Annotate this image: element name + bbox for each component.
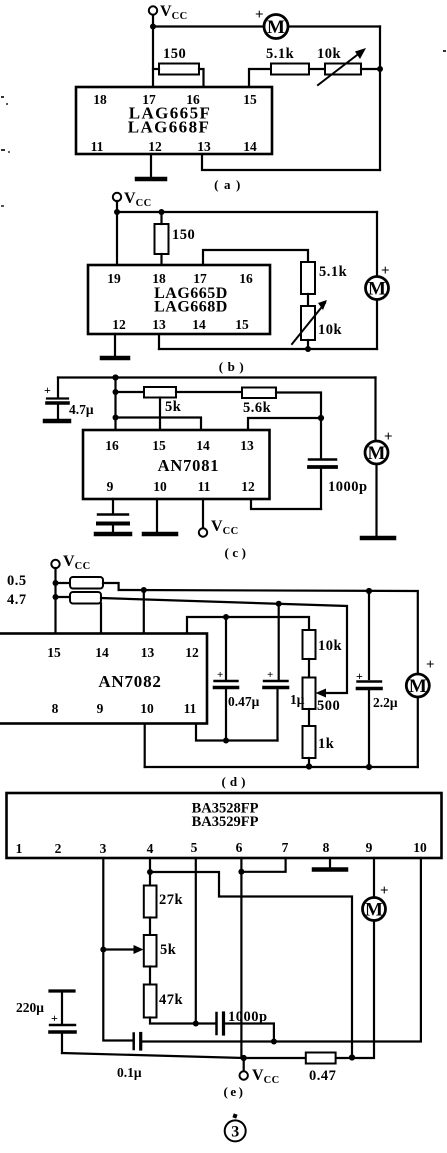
svg-text:+: + [44, 383, 51, 397]
svg-text:150: 150 [172, 227, 195, 243]
resistor 5.6k (c) [242, 388, 276, 417]
wire pin12 to 1000p bottom (c) [251, 499, 321, 509]
wire motor bottom (c) [375, 464, 377, 536]
wire bottom rail (b) [159, 348, 377, 350]
svg-text:4: 4 [147, 841, 154, 856]
svg-text:17: 17 [142, 92, 156, 107]
capacitor 1000p (e) [217, 1009, 268, 1034]
wire pin9 to motor (e) [373, 858, 375, 898]
arrow 500 wiper (d) [316, 689, 327, 698]
motor M (d) [406, 657, 434, 697]
svg-text:7: 7 [282, 840, 289, 855]
svg-text:VCC: VCC [211, 518, 239, 537]
resistor 150 (a) [159, 46, 199, 75]
capacitor 1u (d) [264, 669, 305, 741]
resistor 4.7 (d) [7, 592, 101, 608]
capacitor 220u (e) [16, 991, 75, 1053]
resistor 47k (e) [144, 985, 184, 1018]
variable resistor 10k (a) [317, 46, 366, 85]
junction dot 1u top (d) [276, 601, 282, 607]
wire2 R2 to 500 wiper (d) [101, 598, 347, 693]
junction dot 1k bottom (d) [306, 763, 312, 769]
motor M (c) [365, 429, 393, 464]
svg-text:220μ: 220μ [16, 1000, 44, 1015]
svg-text:12: 12 [148, 139, 162, 154]
wire 1u top stem (d) [278, 604, 280, 680]
wire 27k to 5k (e) [149, 918, 151, 936]
wire 150 right lead to pin16 (a) [199, 69, 204, 87]
wire top rail (c) [58, 376, 376, 378]
svg-text:+: + [255, 7, 264, 23]
svg-text:AN7081: AN7081 [158, 456, 220, 475]
svg-text:5k: 5k [165, 399, 182, 415]
capacitor 0.1u (e) [117, 1034, 142, 1081]
ground pin 12 (b) [102, 334, 128, 358]
junction dot pin16 mid2 (c) [113, 415, 119, 421]
svg-text:5: 5 [191, 840, 198, 855]
svg-text:12: 12 [241, 479, 255, 494]
svg-text:17: 17 [193, 271, 207, 286]
margin speck 3 [443, 50, 446, 52]
capacitor 4.7u (c) [44, 378, 94, 422]
resistor 10k (d) [303, 630, 343, 659]
svg-text:16: 16 [186, 92, 200, 107]
wire 10k right lead (a) [361, 68, 380, 70]
svg-text:LAG668F: LAG668F [128, 118, 211, 137]
svg-text:M: M [365, 900, 383, 921]
svg-text:M: M [368, 279, 386, 300]
motor M (b) [366, 263, 390, 300]
wire pin4-5 tie to chain (e) [150, 872, 352, 1058]
svg-text:16: 16 [105, 438, 119, 453]
junction dot pin4 (e) [147, 869, 153, 875]
wire pin3 vertical to 0.1u (e) [103, 858, 133, 1041]
svg-text:M: M [368, 443, 386, 464]
IC LAG665D/LAG668D box (b) [88, 265, 270, 334]
wire pin15 up lead (a) [249, 69, 271, 87]
svg-text:13: 13 [240, 438, 254, 453]
svg-text:+: + [217, 669, 223, 681]
wire 0.47u top stem (d) [225, 617, 227, 680]
wire right rail (b) [376, 212, 378, 277]
wire motor to right rail (a) [288, 25, 380, 27]
wire pin10 to 0.1u wire (e) [141, 858, 421, 1042]
svg-text:150: 150 [163, 46, 186, 62]
svg-text:(e): (e) [224, 1084, 246, 1099]
wire pin17 to 5.1k (b) [203, 250, 308, 265]
svg-text:12: 12 [112, 317, 126, 332]
wire bottom rail (d) [145, 766, 418, 768]
svg-text:4.7: 4.7 [7, 592, 27, 608]
svg-text:LAG668D: LAG668D [154, 299, 228, 316]
svg-text:8: 8 [52, 701, 59, 716]
resistor 1k (d) [303, 726, 335, 758]
wire bottom to pin13 (a) [202, 154, 380, 170]
wire 1k bottom stub (d) [308, 758, 310, 767]
margin speck 4 [1, 205, 4, 207]
resistor 150 (b) [155, 224, 196, 254]
svg-text:13: 13 [197, 139, 211, 154]
wire right rail (d) [417, 591, 419, 675]
junction dot Vcc rail (b) [114, 209, 120, 215]
svg-text:11: 11 [91, 139, 104, 154]
wire right rail (a) [379, 27, 381, 171]
wire pin11 to caps (d) [196, 724, 278, 741]
wire 10k to 500 (d) [308, 659, 310, 678]
wire 5k to 5.6k (c) [176, 391, 242, 393]
svg-text:14: 14 [243, 139, 257, 154]
svg-text:2.2μ: 2.2μ [373, 695, 398, 710]
svg-text:47k: 47k [159, 992, 184, 1008]
wire 1000p right to 0.1u wire (e) [225, 1024, 274, 1042]
IC BA3528FP/BA3529FP box (e) [7, 793, 442, 858]
capacitor 0.47u (d) [215, 669, 260, 741]
wire pin6 vertical (e) [240, 858, 242, 1058]
junction dot 5k wiper (e) [100, 947, 106, 953]
junction dot rail/pin16 (c) [112, 374, 118, 380]
svg-text:1000p: 1000p [328, 479, 368, 495]
svg-text:11: 11 [184, 701, 197, 716]
junction dot 2.2u top (d) [366, 588, 372, 594]
wire 150 left lead (a) [153, 68, 159, 70]
terminal Vcc pin 11 (c) [199, 499, 239, 537]
junction dot 10k/rail (a) [377, 66, 383, 72]
wire Vcc vertical pin15 (d) [54, 568, 56, 634]
svg-text:+: + [380, 883, 389, 899]
svg-text:3: 3 [231, 1124, 239, 1141]
wire 150 leads (b) [160, 212, 162, 265]
svg-text:+: + [267, 669, 273, 681]
svg-text:19: 19 [107, 271, 121, 286]
wire pin4 stub (e) [149, 858, 151, 886]
svg-text:10k: 10k [318, 322, 343, 338]
svg-text:0.1μ: 0.1μ [117, 1065, 142, 1080]
wire 10k bottom (b) [307, 340, 309, 349]
junction dot (a) Vcc/motor [150, 24, 156, 30]
wire 5k wiper (e) [103, 948, 137, 950]
wire top rail (b) [117, 211, 377, 213]
svg-text:0.5: 0.5 [7, 573, 27, 589]
svg-text:4.7μ: 4.7μ [69, 402, 94, 417]
margin speck 2 [1, 149, 10, 153]
resistor 27k (e) [144, 886, 184, 918]
svg-text:1μ: 1μ [290, 692, 305, 707]
wire right rail (c) [374, 378, 376, 442]
motor M (a) [255, 7, 288, 39]
motor M (e) [363, 883, 389, 921]
terminal Vcc (e) [240, 1058, 280, 1086]
potentiometer 500 (d) [303, 678, 341, 715]
wire pin13 vertical (d) [143, 590, 145, 634]
svg-text:BA3529FP: BA3529FP [192, 814, 259, 830]
svg-text:12: 12 [185, 645, 199, 660]
page number circled 3 [225, 1113, 246, 1141]
svg-text:3: 3 [100, 841, 107, 856]
svg-text:(d): (d) [222, 774, 250, 789]
svg-text:1k: 1k [318, 736, 335, 752]
svg-text:16: 16 [239, 271, 253, 286]
svg-text:15: 15 [235, 317, 249, 332]
junction dot 0.47u top (d) [223, 614, 229, 620]
svg-text:10k: 10k [318, 638, 343, 654]
svg-text:VCC: VCC [160, 3, 188, 22]
svg-text:18: 18 [93, 92, 107, 107]
svg-text:8: 8 [323, 840, 330, 855]
wire pin10 stub (d) [144, 724, 146, 768]
ground pin 12 (a) [137, 154, 165, 179]
wire to 5k resistor (c) [116, 391, 145, 393]
svg-text:15: 15 [47, 645, 61, 660]
wire 500 to 1k (d) [308, 709, 310, 726]
svg-text:6: 6 [236, 840, 243, 855]
svg-text:0.47: 0.47 [309, 1068, 336, 1084]
svg-text:10: 10 [153, 479, 167, 494]
svg-text:AN7082: AN7082 [98, 672, 161, 691]
wire 47k to 1000p (e) [150, 1018, 215, 1024]
svg-text:14: 14 [95, 645, 109, 660]
wire to motor (a) [153, 25, 264, 27]
junction dot pin16 mid1 (c) [113, 389, 119, 395]
svg-text:5.6k: 5.6k [243, 400, 272, 416]
potentiometer 5k (e) [144, 935, 177, 967]
svg-text:15: 15 [152, 438, 166, 453]
wire pin16 vertical (c) [114, 378, 116, 431]
junction dot pin13 top (d) [141, 587, 147, 593]
svg-text:10: 10 [140, 701, 154, 716]
terminal Vcc (d) [51, 553, 90, 572]
svg-text:+: + [381, 263, 390, 279]
svg-text:VCC: VCC [63, 553, 91, 572]
wire motor bottom (b) [376, 300, 378, 350]
junction dot pin5 wire (e) [193, 1021, 199, 1027]
variable resistor 10k (b) [292, 300, 343, 344]
wire Vcc vertical (a) [152, 15, 154, 87]
svg-text:(a): (a) [214, 177, 246, 192]
IC AN7082 box (d) [0, 634, 207, 724]
ground motor (c) [362, 536, 394, 541]
wire 5.6k right to pin13 (c) [248, 393, 321, 431]
wire pin15 stub (c) [159, 398, 161, 431]
ground pin 8 (e) [314, 858, 346, 870]
junction dot R1 left (d) [53, 580, 59, 586]
wire bottom rail left (e) [62, 1053, 306, 1058]
svg-text:(c): (c) [225, 545, 250, 560]
junction dot 1000p top (c) [318, 415, 324, 421]
wire motor bottom to 0.47 (e) [336, 921, 374, 1059]
junction dot 2.2u bottom (d) [366, 764, 372, 770]
arrow 5k wiper (e) [134, 945, 144, 954]
resistor 5.1k (a) [266, 46, 309, 75]
svg-text:1: 1 [16, 841, 23, 856]
svg-text:VCC: VCC [124, 190, 152, 209]
junction dot 0.47u bottom (d) [223, 738, 229, 744]
wire 5k to 47k (e) [149, 967, 151, 985]
svg-text:10k: 10k [317, 46, 342, 62]
IC AN7081 box (c) [83, 430, 270, 499]
wire 5.1k to 10k (a) [309, 68, 325, 70]
svg-text:500: 500 [317, 698, 340, 714]
capacitor and ground pin 9 (c) [96, 499, 130, 534]
svg-text:9: 9 [366, 840, 373, 855]
wire Vcc vertical pin19 (b) [116, 201, 118, 265]
svg-text:(b): (b) [219, 359, 248, 374]
resistor 5k (c) [144, 387, 182, 415]
svg-text:11: 11 [198, 479, 211, 494]
svg-text:VCC: VCC [252, 1067, 280, 1086]
junction dot Vcc node (e) [241, 1055, 247, 1061]
svg-text:13: 13 [152, 317, 166, 332]
resistor 0.5 (d) [7, 573, 103, 589]
resistor 5.1k (b) [301, 262, 348, 294]
svg-text:5.1k: 5.1k [319, 264, 348, 280]
junction dot R2 left (d) [53, 594, 59, 600]
svg-text:+: + [426, 657, 435, 673]
wire pin14 stub (d) [100, 604, 102, 634]
svg-text:5k: 5k [160, 942, 177, 958]
svg-text:14: 14 [192, 317, 206, 332]
wire pin6-7 tie (e) [241, 858, 285, 872]
wire pin13 stub (b) [158, 334, 160, 349]
wire pin14 link (c) [116, 418, 202, 431]
resistor 0.47 (e) [306, 1053, 337, 1085]
svg-text:2: 2 [55, 841, 62, 856]
wire pin12 to 10k (d) [187, 617, 309, 634]
terminal Vcc (b) [113, 190, 152, 209]
svg-text:13: 13 [141, 645, 155, 660]
capacitor 1000p (c) [309, 418, 368, 509]
svg-text:0.47μ: 0.47μ [228, 694, 260, 709]
svg-text:M: M [409, 676, 427, 697]
wire pin5 vertical (e) [195, 858, 197, 1024]
margin speck 1 [1, 96, 8, 105]
svg-text:18: 18 [152, 271, 166, 286]
wire 5.1k to 10k (b) [307, 294, 309, 306]
svg-text:15: 15 [243, 92, 257, 107]
junction dot 1000p drop (e) [271, 1039, 277, 1045]
svg-text:5.1k: 5.1k [266, 46, 295, 62]
terminal Vcc (a) [149, 3, 188, 22]
capacitor 2.2u (d) [356, 591, 398, 767]
wire motor bottom (d) [417, 697, 419, 767]
svg-text:10: 10 [413, 840, 427, 855]
svg-text:27k: 27k [159, 892, 184, 908]
junction dot 10k bottom (b) [305, 346, 311, 352]
svg-text:+: + [384, 429, 393, 445]
svg-text:9: 9 [107, 479, 114, 494]
junction dot chain bottom (e) [349, 1054, 355, 1060]
svg-text:+: + [51, 1011, 58, 1025]
svg-text:9: 9 [97, 701, 104, 716]
svg-text:14: 14 [196, 438, 210, 453]
wire R1 right to wire1 (d) [103, 583, 416, 591]
junction dot 150 top (b) [159, 209, 165, 215]
svg-text:M: M [267, 17, 285, 38]
ground pin 10 (c) [144, 499, 176, 534]
junction dot pin6-7 tie (e) [238, 869, 244, 875]
IC LAG665F/LAG668F box (a) [76, 87, 272, 154]
